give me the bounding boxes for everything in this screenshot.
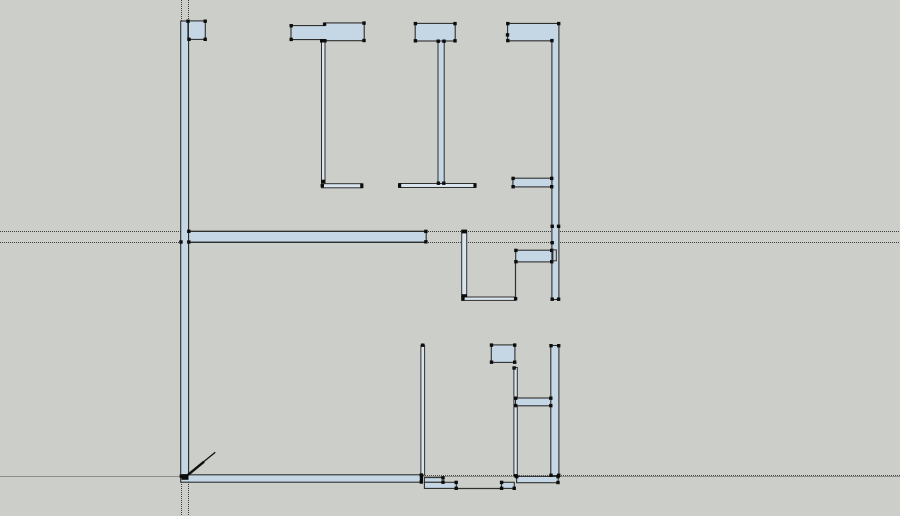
marker W6d tl [514,249,517,252]
marker W8b tr [441,476,444,479]
marker W3a tl [414,22,417,25]
wall W6a mid thin vertical [462,231,467,298]
marker W6d bl [514,260,517,263]
wall W1 right edge [188,21,190,476]
marker W8b br [441,481,444,484]
wall W7c thin vertical [514,368,517,476]
marker W3b bot-l [437,182,440,185]
cap W6a top end [461,230,467,234]
wall W8f bottom right [517,476,559,482]
marker W5 jl-top [187,230,190,233]
marker W2c bot [322,180,325,183]
guide vertical right [188,0,190,516]
marker W7c top [512,366,515,369]
marker W2a bl [290,38,293,41]
notch outline at W6d junction [553,250,556,261]
marker W7e tr [557,344,560,347]
wall W8b step 1 [424,478,443,483]
marker W3b bot-r [442,182,445,185]
marker W2c top-r [323,39,326,42]
marker W5 tr [424,230,427,233]
cap W6a bottom end [461,294,467,297]
cap W2d right end [360,183,363,188]
marker W1b tl [186,20,189,23]
wall W5 bottom edge [189,242,427,244]
marker W4b jl [551,225,554,228]
marker W3a bl [414,39,417,42]
wall W8c step 2 [424,482,456,488]
marker W7e bl [549,474,552,477]
wall W8a bottom long [181,475,422,482]
marker W8e tl [500,481,503,484]
wall W1b top square [188,21,205,40]
wall W7a lower-left thin vertical [421,345,425,475]
marker W5 jl-bot1 [179,240,182,243]
wall W2d bottom bar [322,184,362,188]
marker W7c bottom junction [514,474,517,477]
marker W7d tr [549,397,552,400]
marker W4a tr [557,22,560,25]
marker W2b tr [362,21,365,24]
wall W6d blue wall [516,250,552,262]
marker W5 jl-bot2 [187,240,190,243]
guide horizontal bottom [0,242,900,244]
wall W3a top bar [415,23,455,41]
marker W1b tr [204,20,207,23]
marker W4a tl [506,22,509,25]
marker W8a corner [180,475,183,478]
marker W4b bl [551,298,554,301]
marker W4c bl [511,185,514,188]
marker W3a tr [453,22,456,25]
marker W4b jr [557,225,560,228]
marker W7d bl [514,404,517,407]
guide vertical left [181,0,183,516]
marker W1b bl [187,38,190,41]
axis line (red axis, gray) [0,476,900,478]
marker W3b top-l [437,40,440,43]
marker W2a tl [290,24,293,27]
marker W6b right [514,297,517,300]
marker W8f tl [515,475,518,478]
marker W4b br [557,298,560,301]
wall W3b thin vertical [438,41,444,184]
cap W8a right end [420,475,423,483]
marker W8e br [513,487,516,490]
wall W2ab top bar (stepped) [291,23,364,41]
marker W5 br [424,240,427,243]
marker W2d left [321,184,324,187]
cap W2c bottom end [321,180,325,183]
wall W1 left vertical [181,21,189,476]
wall W6c single edge [515,262,517,297]
marker W4a ml [506,33,509,36]
wall W3c bottom bar [399,184,475,188]
marker W8f tr [556,475,559,478]
wall W7b pillar [491,345,515,363]
diagonal edge thick part [185,462,204,478]
cap W3c right end [473,183,476,188]
wall W8e step 3 [502,482,515,488]
marker W7b tl [490,343,493,346]
wall W7d blue wall [516,398,552,406]
marker W2 step [323,23,326,26]
wall W2c thin vertical [322,41,326,184]
cap W3c left end [398,183,401,188]
marker W6d br [550,260,553,263]
marker W6d tr [550,249,553,252]
guide horizontal lower [421,475,900,477]
marker W7d br [549,404,552,407]
marker W7d tl [514,397,517,400]
marker W2c top-l [320,39,323,42]
marker W4c tl [511,177,514,180]
marker W4a bl [506,39,509,42]
cap W6b left end [461,297,464,301]
wall W5 long horizontal [189,231,427,242]
marker W7b tr [513,343,516,346]
marker W4a inner [550,39,553,42]
wall W7e right vertical lower [551,346,559,476]
marker W8a-join t [420,473,423,476]
marker W8e bl [500,487,503,490]
marker W4c tr [550,177,553,180]
marker W8a-join b [420,480,423,483]
marker W3b top-r [442,40,445,43]
wall W5 top edge [189,231,427,233]
marker W4b ml [551,241,554,244]
marker W1b br [204,38,207,41]
marker W8f br [556,481,559,484]
guide horizontal top [0,231,900,233]
marker W7b br [513,361,516,364]
marker W8c tr [455,481,458,484]
marker W4c br [550,185,553,188]
corner blob [182,474,189,480]
wall W8d threshold edge [456,488,501,490]
wall W4c stub [513,178,552,187]
diagonal edge thin part [203,452,215,462]
wall W4ab L-shape (top bar + right vertical upper) [508,23,559,299]
marker W8c br [455,487,458,490]
marker W7e br [557,474,560,477]
marker W7e tl [549,344,552,347]
marker W3a br [453,39,456,42]
marker W7a top [421,344,424,347]
wall W6b bottom thin bar [462,297,516,300]
marker W7b bl [490,361,493,364]
marker W2b br [362,39,365,42]
